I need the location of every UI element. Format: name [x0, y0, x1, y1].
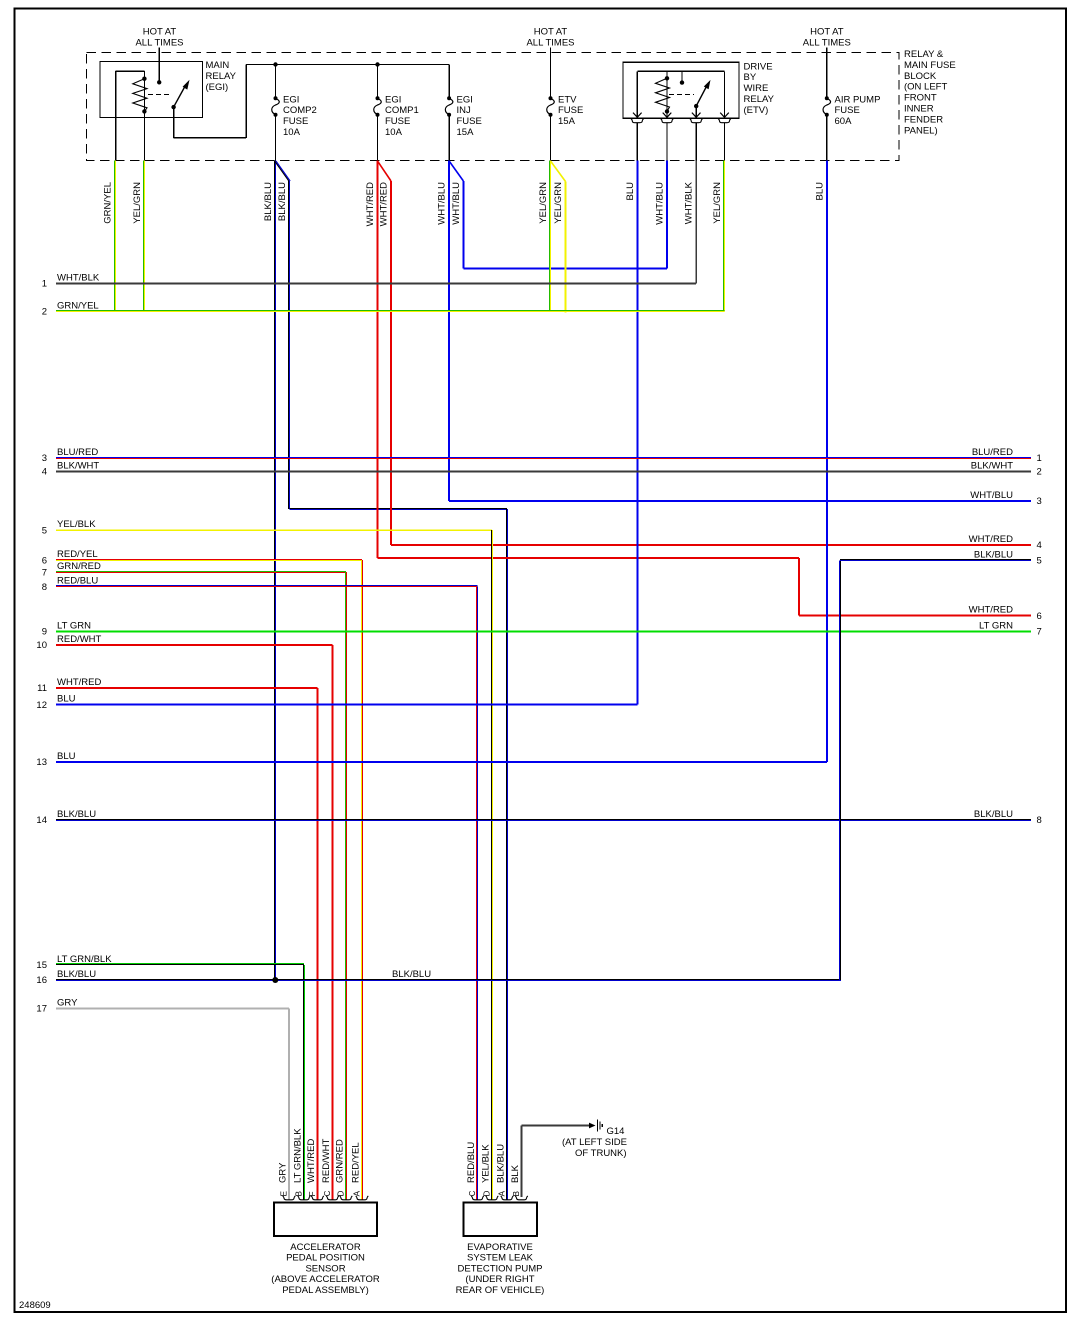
- svg-text:BLK/BLU: BLK/BLU: [392, 969, 431, 980]
- svg-text:2: 2: [1037, 467, 1042, 478]
- wire row 6 RED/YEL / node 6: [56, 559, 362, 561]
- svg-text:15A: 15A: [558, 116, 576, 127]
- svg-text:RELAY: RELAY: [744, 94, 775, 105]
- svg-text:AIR PUMP: AIR PUMP: [835, 94, 881, 105]
- svg-text:FUSE: FUSE: [558, 105, 583, 116]
- svg-text:9: 9: [42, 627, 47, 638]
- svg-text:(AT LEFT SIDE: (AT LEFT SIDE: [562, 1137, 627, 1148]
- fuse EGI INJ 15A: [448, 65, 450, 99]
- svg-text:YEL/BLK: YEL/BLK: [481, 1144, 492, 1183]
- svg-text:WHT/RED: WHT/RED: [365, 182, 376, 226]
- svg-text:GRY: GRY: [57, 998, 78, 1009]
- connector pin F of pedal sensor: [311, 1196, 324, 1200]
- svg-text:RED/WHT: RED/WHT: [57, 634, 102, 645]
- svg-text:COMP1: COMP1: [385, 105, 419, 116]
- svg-text:E: E: [279, 1191, 288, 1196]
- svg-text:BLOCK: BLOCK: [904, 71, 937, 82]
- wire main relay switch output to fuse bus: [173, 107, 175, 138]
- svg-text:4: 4: [42, 467, 47, 478]
- wire DBW relay pin1 internal: [636, 71, 638, 117]
- wire DBW fixed contact lead: [681, 71, 683, 82]
- svg-text:SYSTEM LEAK: SYSTEM LEAK: [467, 1253, 534, 1264]
- svg-text:BY: BY: [744, 72, 757, 83]
- svg-text:GRY: GRY: [278, 1162, 289, 1183]
- svg-text:RED/BLU: RED/BLU: [57, 576, 98, 587]
- svg-text:FUSE: FUSE: [457, 116, 482, 127]
- coil of DBW relay (zigzag): [666, 78, 668, 111]
- switch blade main relay: [174, 85, 186, 108]
- svg-text:MAIN: MAIN: [206, 60, 230, 71]
- wire WHT/RED split diagonal: [378, 161, 392, 181]
- connector pin E of pedal sensor: [283, 1196, 296, 1200]
- svg-text:8: 8: [42, 582, 47, 593]
- svg-text:LT GRN: LT GRN: [57, 621, 91, 632]
- svg-text:RED/YEL: RED/YEL: [351, 1142, 362, 1183]
- linkage dashed line main relay: [148, 93, 171, 95]
- svg-text:F: F: [308, 1191, 317, 1196]
- svg-text:B: B: [294, 1191, 303, 1196]
- connector pin C of pedal sensor: [326, 1196, 339, 1200]
- svg-text:1: 1: [1037, 453, 1042, 464]
- svg-text:15: 15: [36, 960, 47, 971]
- drive-by-wire relay K2 box: [623, 62, 739, 118]
- wire BLK/BLU split diagonal: [275, 161, 289, 181]
- svg-text:WHT/BLU: WHT/BLU: [655, 182, 666, 225]
- svg-text:G14: G14: [607, 1126, 625, 1137]
- svg-text:LT GRN/BLK: LT GRN/BLK: [293, 1128, 304, 1183]
- svg-text:BLK/WHT: BLK/WHT: [57, 461, 99, 472]
- svg-text:(ABOVE ACCELERATOR: (ABOVE ACCELERATOR: [271, 1274, 380, 1285]
- fuse AIR PUMP 60A: [826, 97, 828, 99]
- svg-text:EGI: EGI: [283, 94, 299, 105]
- wire row 1 WHT/BLK / node 1: [56, 283, 696, 285]
- wire WHT/BLU to right pin 3: [449, 500, 1031, 502]
- svg-text:FRONT: FRONT: [904, 93, 937, 104]
- fuse EGI COMP2 10A: [275, 65, 277, 99]
- wire DBW relay coil top lead: [666, 71, 668, 78]
- connector pin A of pedal sensor: [356, 1196, 369, 1200]
- svg-text:HOT AT: HOT AT: [534, 27, 568, 38]
- svg-text:13: 13: [36, 757, 47, 768]
- connector pin 4 of DBW relay: [718, 119, 731, 123]
- svg-text:EGI: EGI: [385, 94, 401, 105]
- coil of main relay (zigzag): [143, 79, 145, 112]
- svg-text:HOT AT: HOT AT: [143, 27, 177, 38]
- svg-text:WHT/BLU: WHT/BLU: [451, 182, 462, 225]
- wire row 10 RED/WHT / node 10: [56, 644, 333, 646]
- main relay K1 box: [100, 62, 203, 118]
- svg-text:(ON LEFT: (ON LEFT: [904, 82, 947, 93]
- svg-text:YEL/GRN: YEL/GRN: [132, 182, 143, 224]
- svg-text:WHT/RED: WHT/RED: [306, 1139, 317, 1183]
- svg-text:SENSOR: SENSOR: [305, 1263, 345, 1274]
- svg-text:BLK/BLU: BLK/BLU: [57, 809, 96, 820]
- svg-text:MAIN FUSE: MAIN FUSE: [904, 60, 956, 71]
- svg-text:BLK/BLU: BLK/BLU: [974, 809, 1013, 820]
- wire WHT/RED to right pin 4: [390, 181, 392, 545]
- wire row 16 BLK/BLU / node 16: [56, 979, 841, 981]
- svg-text:GRN/YEL: GRN/YEL: [57, 301, 99, 312]
- svg-text:OF TRUNK): OF TRUNK): [575, 1148, 627, 1159]
- svg-text:FUSE: FUSE: [835, 105, 860, 116]
- wire BLK/BLU to evap pump pin A: [288, 181, 290, 509]
- svg-text:BLK/BLU: BLK/BLU: [57, 969, 96, 980]
- svg-text:5: 5: [1037, 556, 1042, 567]
- wire hot feed to air pump fuse: [826, 48, 828, 99]
- svg-text:(EGI): (EGI): [206, 82, 229, 93]
- svg-text:PANEL): PANEL): [904, 125, 938, 136]
- svg-text:WHT/BLU: WHT/BLU: [437, 182, 448, 225]
- svg-text:14: 14: [36, 815, 47, 826]
- svg-text:10A: 10A: [283, 127, 301, 138]
- svg-text:6: 6: [42, 555, 47, 566]
- svg-text:17: 17: [36, 1004, 47, 1015]
- svg-text:6: 6: [1037, 611, 1042, 622]
- connector pin 2 of DBW relay: [661, 119, 674, 123]
- wire hot feed to ETV fuse: [550, 48, 552, 99]
- svg-text:FENDER: FENDER: [904, 114, 943, 125]
- svg-text:BLU: BLU: [814, 182, 825, 201]
- svg-text:1: 1: [42, 279, 47, 290]
- svg-text:12: 12: [36, 700, 47, 711]
- wire fuse bus: [246, 64, 449, 66]
- svg-text:PEDAL ASSEMBLY): PEDAL ASSEMBLY): [282, 1285, 369, 1296]
- wire DBW relay pin2 internal: [666, 111, 668, 117]
- wire row 3 BLU/RED / node 3: [56, 457, 1031, 459]
- svg-text:RELAY: RELAY: [206, 71, 237, 82]
- svg-text:ALL TIMES: ALL TIMES: [135, 38, 183, 49]
- svg-text:HOT AT: HOT AT: [810, 27, 844, 38]
- wire YEL/GRN from ETV fuse: [549, 161, 551, 312]
- svg-text:D: D: [482, 1190, 491, 1196]
- svg-text:BLK/BLU: BLK/BLU: [277, 182, 288, 221]
- accelerator pedal position sensor box: [274, 1203, 377, 1237]
- svg-text:INNER: INNER: [904, 104, 934, 115]
- svg-text:7: 7: [42, 567, 47, 578]
- connector pin 3 of DBW relay: [690, 119, 703, 123]
- wire row 4 BLK/WHT / node 4: [56, 471, 1031, 473]
- wire row 12 BLU / node 12: [56, 704, 637, 706]
- svg-text:C: C: [468, 1190, 477, 1196]
- wire DBW pin2 lead: [666, 123, 668, 161]
- wire main relay pin to GRN/YEL: [115, 71, 117, 160]
- wire row 8 RED/BLU / node 8: [56, 585, 478, 587]
- wire row 7 GRN/RED / node 7: [56, 571, 346, 573]
- switch blade DBW relay: [696, 85, 707, 107]
- wire row 2 GRN/YEL / node 2: [56, 310, 725, 312]
- svg-text:BLK/WHT: BLK/WHT: [971, 461, 1013, 472]
- node DBW coil bottom: [665, 109, 669, 113]
- wire BLU from DBW pin 1 to row 12: [636, 161, 638, 705]
- wire row 11 WHT/RED / node 11: [56, 687, 318, 689]
- svg-text:WHT/BLU: WHT/BLU: [970, 490, 1013, 501]
- wire DBW pin1 lead: [636, 123, 638, 161]
- wire BLU from air pump fuse to row 13: [826, 161, 828, 763]
- svg-text:WHT/RED: WHT/RED: [379, 182, 390, 226]
- wire DBW pin4 lead: [724, 123, 726, 161]
- svg-text:A: A: [497, 1190, 506, 1196]
- svg-text:PEDAL POSITION: PEDAL POSITION: [286, 1253, 365, 1264]
- wire BLK from evap pump pin B to G14: [521, 1126, 523, 1197]
- svg-text:YEL/GRN: YEL/GRN: [712, 182, 723, 224]
- svg-text:3: 3: [1037, 496, 1042, 507]
- svg-text:BLU: BLU: [625, 182, 636, 201]
- wire row 15 LT GRN/BLK / node 15: [56, 963, 304, 965]
- wire main relay coil top lead: [116, 70, 145, 72]
- connector pin B of evap pump: [515, 1196, 528, 1200]
- svg-text:COMP2: COMP2: [283, 105, 317, 116]
- wire WHT/BLU from EGI INJ fuse (left): [448, 161, 450, 502]
- junction bus / EGI COMP2 fuse: [273, 62, 277, 66]
- svg-text:YEL/GRN: YEL/GRN: [538, 182, 549, 224]
- node DBW switch pivot: [694, 104, 698, 108]
- wire hot-at-all-times feed to main relay: [158, 48, 160, 83]
- svg-text:8: 8: [1037, 815, 1042, 826]
- connector pin D of pedal sensor: [340, 1196, 353, 1200]
- wire BLK/BLU row16 to right pin 5: [839, 560, 841, 980]
- linkage dashed line DBW relay: [669, 94, 694, 96]
- wire air pump fuse lead: [826, 115, 828, 161]
- svg-text:WHT/RED: WHT/RED: [969, 534, 1013, 545]
- wire GRN/YEL from main relay: [114, 161, 116, 312]
- svg-text:GRN/RED: GRN/RED: [335, 1139, 346, 1183]
- node main relay switch pivot: [171, 105, 175, 109]
- svg-text:A: A: [352, 1190, 361, 1196]
- svg-text:YEL/GRN: YEL/GRN: [553, 182, 564, 224]
- wire DBW relay pin4 internal: [724, 71, 726, 117]
- node DBW fixed contact: [680, 80, 684, 84]
- svg-text:248609: 248609: [19, 1300, 51, 1311]
- svg-text:RED/BLU: RED/BLU: [466, 1142, 477, 1183]
- wire YEL/GRN from DBW pin 4 to row 2: [723, 161, 725, 312]
- wire YEL/GRN split diagonal: [551, 161, 566, 182]
- node main relay coil bottom: [142, 109, 146, 113]
- svg-text:BLU/RED: BLU/RED: [57, 447, 98, 458]
- svg-text:3: 3: [42, 453, 47, 464]
- wire WHT/RED from EGI COMP1 fuse (left): [377, 161, 379, 558]
- svg-text:(ETV): (ETV): [744, 105, 769, 116]
- svg-text:GRN/RED: GRN/RED: [57, 561, 101, 572]
- junction row16 / BLK/BLU from EGI COMP2: [272, 977, 278, 983]
- svg-text:WHT/BLK: WHT/BLK: [684, 181, 695, 224]
- wire WHT/BLU to DBW relay pin 2: [462, 181, 464, 269]
- svg-text:BLK/BLU: BLK/BLU: [263, 182, 274, 221]
- svg-text:11: 11: [37, 683, 47, 694]
- svg-text:ALL TIMES: ALL TIMES: [803, 38, 851, 49]
- svg-text:10: 10: [36, 640, 47, 651]
- svg-text:D: D: [336, 1190, 345, 1196]
- svg-text:ALL TIMES: ALL TIMES: [526, 38, 574, 49]
- svg-text:WHT/BLK: WHT/BLK: [57, 273, 100, 284]
- svg-text:FUSE: FUSE: [283, 116, 308, 127]
- svg-text:C: C: [323, 1190, 332, 1196]
- wire WHT/BLK from DBW pin 3 to row 1: [695, 161, 697, 284]
- wire row 5 YEL/BLK / node 5: [56, 529, 492, 531]
- wire YEL/GRN branch to row 2: [565, 182, 567, 313]
- wire row 13 BLU / node 13: [56, 761, 827, 763]
- svg-text:4: 4: [1037, 540, 1042, 551]
- svg-text:BLU: BLU: [57, 694, 76, 705]
- wire row 9 LT GRN / node 9: [56, 631, 1031, 633]
- svg-text:7: 7: [1037, 627, 1042, 638]
- svg-text:10A: 10A: [385, 127, 403, 138]
- svg-text:YEL/BLK: YEL/BLK: [57, 519, 96, 530]
- node DBW coil top: [665, 76, 669, 80]
- connector pin C of evap pump: [471, 1196, 484, 1200]
- svg-text:WHT/RED: WHT/RED: [969, 605, 1013, 616]
- wire BLK/BLU from EGI COMP2 fuse (left): [274, 161, 276, 979]
- svg-text:REAR OF VEHICLE): REAR OF VEHICLE): [456, 1285, 545, 1296]
- wire WHT/RED to right pin 6: [378, 557, 800, 559]
- connector pin D of evap pump: [486, 1196, 499, 1200]
- svg-text:FUSE: FUSE: [385, 116, 410, 127]
- svg-text:BLU: BLU: [57, 751, 76, 762]
- wire row 17 GRY / node 17: [56, 1008, 289, 1010]
- svg-text:(UNDER RIGHT: (UNDER RIGHT: [465, 1274, 534, 1285]
- fuse EGI COMP1 10A: [377, 65, 379, 99]
- svg-text:BLK/BLU: BLK/BLU: [974, 549, 1013, 560]
- svg-text:DRIVE: DRIVE: [744, 61, 773, 72]
- svg-text:16: 16: [36, 975, 47, 986]
- svg-text:5: 5: [42, 525, 47, 536]
- svg-text:EVAPORATIVE: EVAPORATIVE: [467, 1242, 533, 1253]
- svg-text:WIRE: WIRE: [744, 83, 769, 94]
- connector pin A of evap pump: [501, 1196, 514, 1200]
- svg-text:EGI: EGI: [457, 94, 473, 105]
- node main relay fixed contact: [157, 80, 161, 84]
- relay and main fuse block dashed box: [87, 53, 900, 161]
- svg-text:INJ: INJ: [457, 105, 472, 116]
- svg-text:LT GRN/BLK: LT GRN/BLK: [57, 954, 112, 965]
- svg-text:GRN/YEL: GRN/YEL: [103, 182, 114, 224]
- fuse ETV 15A: [550, 97, 552, 99]
- svg-text:BLK/BLU: BLK/BLU: [496, 1144, 507, 1183]
- svg-text:WHT/RED: WHT/RED: [57, 677, 101, 688]
- svg-text:2: 2: [42, 307, 47, 318]
- svg-text:60A: 60A: [835, 116, 853, 127]
- svg-text:RED/YEL: RED/YEL: [57, 549, 98, 560]
- svg-text:RED/WHT: RED/WHT: [321, 1138, 332, 1183]
- svg-text:BLK: BLK: [510, 1164, 521, 1183]
- ground G14 symbol: [589, 1123, 596, 1129]
- wire YEL/GRN from main relay coil: [143, 161, 145, 312]
- svg-text:ACCELERATOR: ACCELERATOR: [290, 1242, 361, 1253]
- wire DBW pin3 lead: [695, 123, 697, 161]
- connector pin 1 of DBW relay: [631, 119, 644, 123]
- node main relay coil top: [142, 77, 146, 81]
- svg-text:15A: 15A: [457, 127, 475, 138]
- wire DBW relay pin3 internal: [695, 106, 697, 117]
- svg-text:LT GRN: LT GRN: [979, 621, 1013, 632]
- wire DBW relay internal top bus: [637, 70, 724, 72]
- junction bus / EGI COMP1 fuse: [375, 62, 379, 66]
- wire main relay coil to YEL/GRN: [143, 111, 145, 160]
- wire row 14 BLK/BLU / node 14: [56, 819, 1031, 821]
- svg-text:DETECTION PUMP: DETECTION PUMP: [458, 1263, 543, 1274]
- evaporative system leak detection pump box: [464, 1203, 538, 1237]
- svg-text:BLU/RED: BLU/RED: [972, 447, 1013, 458]
- svg-text:ETV: ETV: [558, 94, 577, 105]
- svg-text:B: B: [512, 1191, 521, 1196]
- wire WHT/BLU split diagonal: [449, 161, 463, 181]
- connector pin B of pedal sensor: [298, 1196, 311, 1200]
- svg-text:RELAY &: RELAY &: [904, 49, 944, 60]
